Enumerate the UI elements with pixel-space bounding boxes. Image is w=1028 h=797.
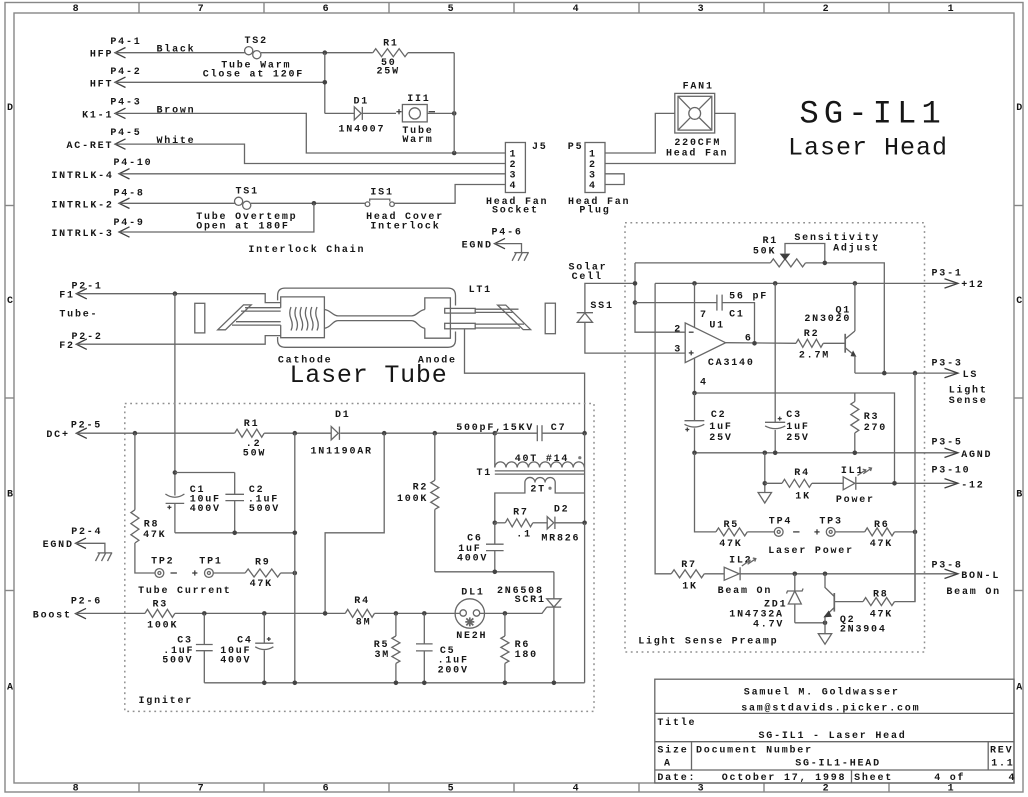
connector pin P4-10 INTRLK-4 [51,158,152,182]
interlock switch IS1 Head Cover Interlock [365,188,444,233]
capacitor C2 1uF 25V [685,393,733,453]
anode cup of laser tube [425,298,451,338]
svg-text:C4: C4 [237,636,253,647]
svg-text:3: 3 [674,345,682,356]
resistor R1 .2 50W ballast [235,419,267,460]
svg-text:1N1190AR: 1N1190AR [311,446,373,457]
svg-text:P4-6: P4-6 [492,228,523,239]
svg-text:-12: -12 [961,480,984,491]
ground triangle at Q2 [818,623,831,644]
svg-text:MR826: MR826 [541,534,580,545]
ground triangle at R4 [758,493,771,504]
title block author [744,687,900,699]
wire C1 C2 bottom rail [175,531,297,536]
title block email [741,703,920,715]
svg-text:+12: +12 [961,280,984,291]
wire AGND to R4 node [763,453,768,493]
wire op-amp output pin 6 row [726,341,796,346]
test point TP3 [819,516,842,536]
svg-text:P4-5: P4-5 [110,128,141,139]
wire D1 to C7 node [340,431,497,436]
svg-text:R4: R4 [794,468,810,479]
svg-text:DC+: DC+ [46,430,69,441]
svg-text:D: D [7,103,15,114]
resistor R3 270 [851,393,887,453]
label Tube Current [138,585,232,597]
label Light Sense Preamp [638,635,778,647]
connector pin P2-1 F1 [59,282,102,302]
svg-text:CA3140: CA3140 [708,358,755,369]
svg-text:Boost: Boost [33,611,72,622]
wire anode to igniter [465,329,585,433]
transformer T1 core [495,471,585,474]
wire TP3 to R6 [835,531,865,533]
svg-text:270: 270 [864,423,887,434]
transistor Q1 2N3020 [804,306,855,357]
svg-text:J5: J5 [532,142,548,153]
svg-text:Tube-: Tube- [59,309,98,321]
svg-text:1: 1 [948,4,956,15]
svg-text:P4-1: P4-1 [110,37,141,48]
svg-text:TS2: TS2 [245,36,268,47]
svg-text:P2-1: P2-1 [72,282,103,293]
wire R7 to D2 [533,522,547,524]
svg-text:2: 2 [823,4,831,15]
svg-text:sam@stdavids.picker.com: sam@stdavids.picker.com [741,703,920,715]
svg-text:500V: 500V [162,656,193,667]
wire op-amp pin 4 down [694,358,696,393]
label Laser Tube [290,361,448,390]
diode D1 1N4007 [339,96,386,135]
resistor R7 .1 snubber [493,508,533,541]
svg-text:Sense: Sense [949,396,988,407]
transformer T1 primary 40T #14 [477,433,585,479]
connector pin P2-2 F2 [59,332,102,352]
wire C6 bottom to SCR anode [435,570,554,575]
svg-text:R9: R9 [255,558,271,569]
svg-text:C1: C1 [729,309,745,320]
svg-text:4 of: 4 of [934,772,965,784]
svg-text:LS: LS [963,370,979,381]
svg-text:1N4007: 1N4007 [339,125,386,136]
svg-text:Date:: Date: [657,773,696,784]
svg-text:NE2H: NE2H [456,631,487,642]
svg-text:EGND: EGND [462,241,493,252]
resistor R4 1K [765,468,812,503]
igniter bottom rail [204,523,584,685]
svg-text:LT1: LT1 [469,285,492,296]
svg-text:R3: R3 [864,412,880,423]
svg-text:100K: 100K [147,620,178,631]
svg-text:INTRLK-3: INTRLK-3 [51,229,113,240]
svg-text:A: A [664,758,672,769]
svg-text:White: White [157,135,196,147]
svg-text:P5: P5 [568,142,584,153]
svg-text:REV: REV [990,746,1013,757]
svg-text:Size: Size [657,745,688,757]
wire R4 to DL1 [375,611,460,616]
wire INTRLK-2 to TS1 [119,202,235,204]
wire IS1 to J5 pin 4 [394,185,505,204]
wire IL1 to -12 row [856,481,958,486]
wire R2 to Q1 base [823,342,845,344]
SCR SCR1 2N6508 [497,572,561,683]
svg-text:47K: 47K [870,610,893,621]
wire TS2 to R1 [261,50,373,55]
svg-text:P3-3: P3-3 [932,359,963,370]
wire op-amp pin 7 from +12 [694,283,696,327]
transistor Q2 2N3904 [825,574,887,636]
op-amp U1 CA3140 [674,310,754,388]
svg-text:A: A [1016,683,1024,694]
anode pin bars [445,308,476,328]
wire LS row [855,371,958,376]
svg-text:SCR1: SCR1 [515,595,546,606]
svg-text:TS1: TS1 [236,186,259,197]
svg-text:P4-3: P4-3 [110,98,141,109]
svg-text:25V: 25V [786,433,809,444]
svg-text:R2: R2 [804,329,820,340]
wire HFT row [115,81,325,83]
svg-text:2N3020: 2N3020 [804,314,851,325]
wire +12 rail [655,281,958,286]
connector pin P4-2 HFT [90,67,142,91]
svg-text:3: 3 [698,784,706,795]
wire Q1 emitter to LS row [854,356,856,373]
resistor R5 3M [374,613,400,682]
label Anode [418,355,457,367]
svg-text:500pF,15KV: 500pF,15KV [456,423,534,434]
wire R9 to left rail [281,571,298,576]
svg-text:T1: T1 [477,468,493,479]
wire Brown K1-1 to J5 pin 1 [115,106,505,156]
resistor R4 8M [345,596,374,628]
svg-text:U1: U1 [709,321,725,332]
svg-text:5: 5 [448,4,456,15]
connector pin P2-6 Boost [33,597,102,622]
svg-text:400V: 400V [190,504,221,515]
svg-text:2: 2 [674,324,682,335]
svg-text:Close at 120F: Close at 120F [203,69,304,81]
wire +12 down to R7 [655,283,671,573]
earth ground P4-6 [512,253,529,261]
svg-text:4: 4 [573,4,581,15]
wire IL2 to P3-8 [740,572,958,577]
svg-text:47K: 47K [870,539,893,550]
svg-text:R4: R4 [354,596,370,607]
connector pin P2-5 DC+ [46,421,102,442]
wire D1 to II1 [362,112,396,114]
transformer T1 secondary 2T [495,477,585,522]
svg-text:4: 4 [573,784,581,795]
capacitor C3 .1uF 500V [162,613,213,682]
svg-text:R3: R3 [153,600,169,611]
svg-text:2: 2 [589,160,597,171]
wire pot right to LS node [806,261,885,374]
connector pin P4-3 K1-1 [82,98,141,122]
wire R7 to IL2 [704,573,724,575]
svg-text:Warm: Warm [402,135,433,146]
capacitor C7 500pF 15KV [456,423,587,441]
svg-text:47K: 47K [719,539,742,550]
svg-text:F2: F2 [59,341,75,352]
svg-text:7: 7 [198,4,206,15]
resistor R2 2.7M [796,329,830,362]
title block date and sheet [657,772,1016,784]
wire vertical TS2 node down to D1 [323,53,328,114]
svg-text:P4-10: P4-10 [114,158,153,169]
wire ZD1 anode to Q2 emitter node [795,621,828,626]
svg-text:8: 8 [73,4,81,15]
wire R6 to LS vertical [895,530,918,535]
wire solar cell top to inverting node [585,283,635,312]
connector pin P2-4 EGND [43,527,103,551]
svg-text:2T: 2T [530,485,546,496]
svg-text:F1: F1 [59,291,75,302]
connector pin P3-8 BON-L Beam On [932,561,1001,599]
svg-text:6: 6 [323,784,331,795]
resistor R6 180 [501,613,538,682]
diode D1 1N1190AR [311,410,373,457]
resistor R9 47K [245,558,280,591]
wire AGND node down to R5 [695,453,716,532]
anode pin lines to Brewster window [475,309,524,328]
indicator lamp II1 Tube Warm [396,94,435,146]
svg-text:AC-RET: AC-RET [67,141,114,152]
LED IL1 Power [836,466,875,506]
capacitor C1 10uF 400V [165,470,220,533]
wire EGND to earth ground [495,244,522,253]
svg-text:5: 5 [448,784,456,795]
resistor R5 47K [716,520,747,550]
wire C1 top rail to C2 [175,472,235,474]
connector pin P3-10 -12 [932,466,985,492]
diode D2 MR826 [541,505,580,545]
svg-text:180: 180 [515,650,538,661]
svg-text:October 17, 1998: October 17, 1998 [722,772,847,784]
svg-text:1: 1 [948,784,956,795]
title block frame [655,679,1014,783]
svg-text:INTRLK-2: INTRLK-2 [51,200,113,211]
svg-text:2: 2 [510,160,518,171]
thermal switch TS2 [203,36,304,81]
svg-text:C3: C3 [177,636,193,647]
wire right rail R1/II1 down to J5 pin 1 [453,53,455,153]
capacitor C1 56 pF feedback [635,292,768,344]
label Laser Power [768,546,854,557]
connector pin P4-5 AC-RET [67,128,142,152]
svg-text:1K: 1K [682,581,698,592]
wire R4 to IL1 [812,482,843,484]
resistor R1 50 25W [373,38,408,77]
svg-text:Power: Power [836,495,875,506]
svg-text:56 pF: 56 pF [729,292,768,303]
svg-text:Beam On: Beam On [946,587,1001,598]
title SG-IL1 [800,96,946,133]
fan FAN1 220CFM Head Fan [666,82,728,160]
svg-text:8M: 8M [356,618,372,629]
svg-text:SG-IL1 - Laser Head: SG-IL1 - Laser Head [759,730,907,742]
connector pin P3-3 LS Light Sense [932,359,988,408]
svg-text:1: 1 [589,150,597,161]
wire P5 pin 3 to pin 4 jumper [605,174,624,185]
tube bore [324,310,424,329]
zener diode ZD1 1N4732A 4.7V [729,574,803,631]
svg-text:Sensitivity: Sensitivity [794,232,880,244]
wire pin-4 rail [692,391,894,484]
svg-text:Laser Tube: Laser Tube [290,361,448,390]
svg-text:HFT: HFT [90,79,113,90]
svg-text:K1-1: K1-1 [82,110,113,121]
svg-text:TP3: TP3 [819,516,842,527]
svg-text:.1: .1 [516,530,532,541]
svg-text:2: 2 [823,784,831,795]
svg-text:BON-L: BON-L [961,571,1000,582]
svg-text:Black: Black [157,44,196,56]
svg-text:A: A [7,683,15,694]
svg-text:Light Sense Preamp: Light Sense Preamp [638,635,778,647]
svg-text:IL1: IL1 [841,466,864,477]
wire Q2 base to R8 [834,601,863,603]
svg-text:INTRLK-4: INTRLK-4 [51,171,113,182]
svg-text:TP1: TP1 [199,557,222,568]
svg-text:R5: R5 [724,520,740,531]
svg-text:SG-IL1: SG-IL1 [800,96,946,133]
svg-text:4: 4 [700,377,708,388]
LED IL2 Beam On [718,555,773,597]
svg-text:Sheet: Sheet [854,772,893,784]
label Solar Cell [569,261,608,283]
svg-text:Interlock: Interlock [370,220,440,232]
svg-text:Head Fan: Head Fan [666,148,728,160]
resistor R2 100K [397,433,439,572]
svg-text:400V: 400V [457,554,488,565]
cathode stem bars [232,308,281,325]
capacitor C5 .1uF 200V [416,613,469,682]
connector J5 Head Fan Socket [486,142,548,217]
wire F2 to cathode [76,336,280,345]
svg-text:Adjust: Adjust [833,242,880,254]
svg-text:B: B [7,490,15,501]
svg-text:C6: C6 [467,533,483,544]
svg-text:Document Number: Document Number [696,745,813,757]
svg-text:R7: R7 [513,508,529,519]
svg-text:1K: 1K [795,492,811,503]
svg-text:8: 8 [73,784,81,795]
svg-text:Brown: Brown [157,106,196,117]
label Igniter [139,695,194,707]
svg-text:DL1: DL1 [461,587,484,598]
label Interlock Chain [248,244,365,256]
svg-text:4: 4 [1009,773,1017,784]
svg-text:R1: R1 [244,419,260,430]
resistor R6 47K [865,520,895,550]
svg-text:Open at 180F: Open at 180F [196,221,290,232]
svg-text:2.7M: 2.7M [799,351,830,362]
connector pin P4-9 INTRLK-3 [51,218,144,240]
svg-text:7: 7 [198,784,206,795]
test point TP1 [199,557,222,578]
thermal switch TS1 Tube Overtemp [196,186,297,232]
left mirror of laser tube [195,303,205,333]
wire R1 to right rail [408,52,454,54]
svg-text:TP2: TP2 [151,557,174,568]
capacitor C3 1uF 25V bypass [765,283,810,452]
wire P5 pin 2 to fan [605,113,735,163]
wire to D1 anode [325,112,354,114]
svg-text:Beam On: Beam On [718,586,773,597]
wire pot row left to inverting node [635,262,770,264]
svg-text:R1: R1 [383,38,399,49]
svg-text:3M: 3M [375,650,391,661]
label Tube- [59,309,98,321]
svg-text:C3: C3 [786,410,802,421]
cathode coil [290,307,319,331]
resistor R3 100K [145,600,178,632]
wire White AC-RET to J5 pin 2 [115,135,505,164]
dashed box Light Sense Preamp [625,223,925,652]
polarity marks Tube Current [171,570,198,575]
wire R1 to D1 [264,431,331,436]
wire left rail down [294,433,296,683]
svg-text:AGND: AGND [961,450,992,461]
wire P5 pin 1 to fan [605,113,675,153]
svg-text:P2-6: P2-6 [71,597,102,608]
wire Q1 collector to +12 [854,283,856,331]
wire R5 to TP4 [747,531,774,533]
svg-text:C: C [1016,296,1024,307]
svg-text:200V: 200V [438,665,469,676]
svg-text:P3-5: P3-5 [932,438,963,449]
svg-text:3: 3 [589,171,597,182]
svg-text:25W: 25W [377,67,400,78]
capacitor C6 1uF 400V [457,523,504,572]
svg-text:R7: R7 [681,560,697,571]
svg-text:4.7V: 4.7V [753,620,784,631]
svg-text:Laser Power: Laser Power [768,546,854,557]
svg-text:7: 7 [700,310,708,321]
connector pin P3-5 AGND [932,438,993,461]
svg-text:47K: 47K [143,530,166,541]
label Cathode [278,355,333,367]
svg-text:47K: 47K [250,579,273,590]
connector P5 Head Fan Plug [568,142,631,217]
title Laser Head [788,134,948,163]
svg-text:100K: 100K [397,494,428,505]
wire DC+ rail to R1 [76,431,234,436]
earth ground P2-4 [96,553,113,561]
svg-text:P3-10: P3-10 [932,466,971,477]
svg-text:P2-2: P2-2 [72,332,103,343]
wire II1 to right rail [427,111,456,116]
test point TP4 [769,516,792,536]
wire F1 to cathode [76,291,280,302]
svg-text:P4-2: P4-2 [110,67,141,78]
svg-text:Socket: Socket [492,205,539,217]
svg-text:SG-IL1-HEAD: SG-IL1-HEAD [795,758,881,769]
svg-text:1.1: 1.1 [991,758,1014,769]
wire DL1 to SCR gate node [480,611,508,616]
wire AGND rail [692,451,958,456]
svg-text:FAN1: FAN1 [683,82,714,93]
svg-text:4: 4 [589,181,597,192]
wire INTRLK-4 to J5 pin 3 [119,173,505,175]
laser tube LT1 envelope [278,285,492,347]
test point TP2 [151,557,174,578]
svg-text:1: 1 [510,150,518,161]
svg-text:4: 4 [510,181,518,192]
connector pin P4-1 HFP [90,37,142,61]
